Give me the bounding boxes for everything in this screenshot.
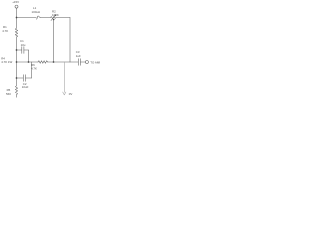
svg-text:100K: 100K — [52, 13, 59, 17]
wire: top rail middle segment — [40, 17, 50, 19]
wire: left rail mid section — [16, 50, 18, 78]
wire: C1 drop to mid bus — [28, 50, 30, 62]
capacitor C3 plates (output coupling) — [78, 59, 80, 66]
wire: mid bus right segment — [48, 61, 79, 63]
svg-text:4.7K: 4.7K — [2, 29, 8, 33]
wire: C2 bypass riser — [31, 62, 33, 78]
svg-text:4.7K 1W: 4.7K 1W — [1, 60, 12, 64]
svg-text:4.7K: 4.7K — [31, 67, 37, 71]
junction: wiper drop on mid bus — [53, 61, 55, 63]
svg-text:1uF: 1uF — [76, 54, 81, 58]
wire: top rail left segment — [17, 17, 37, 19]
svg-text:+15V: +15V — [12, 0, 19, 4]
resistor R6 (mid bus, horizontal) — [38, 61, 48, 64]
capacitor C1 branch wire — [17, 49, 22, 51]
wire: C1 to drop — [24, 49, 29, 51]
inductor L1 (inline squiggle on top rail) — [36, 16, 40, 19]
resistor R1 (left rail, vertical) — [15, 18, 17, 51]
svg-text:TO AMP: TO AMP — [90, 60, 100, 64]
terminal J1 (+15V input) — [15, 5, 18, 8]
wire: return drop from mid bus — [63, 62, 65, 92]
svg-text:10u: 10u — [21, 43, 26, 47]
svg-text:0V: 0V — [69, 92, 73, 96]
resistor R5 (left rail bottom, vertical) — [15, 78, 17, 97]
terminal J2 (output) — [85, 61, 88, 64]
capacitor C1 plates — [22, 47, 24, 54]
junction: top rail at left rail — [16, 17, 18, 19]
wire: wiper drop to mid bus — [53, 20, 55, 63]
wire: mid bus left segment — [17, 61, 39, 63]
svg-text:560: 560 — [6, 92, 11, 96]
svg-text:10uF: 10uF — [22, 85, 29, 89]
junction: C1 drop on mid bus — [28, 61, 30, 63]
wire: terminal to top rail — [16, 8, 18, 17]
wire: top rail right segment — [56, 17, 70, 19]
potentiometer R2 wiper arrow — [51, 15, 56, 21]
junction: mid bus at left rail — [16, 61, 18, 63]
junction: C2 branch at left rail — [16, 77, 18, 79]
junction: C1 branch at left rail — [16, 49, 18, 51]
wire: right drop from top rail to mid bus — [69, 18, 71, 63]
capacitor C2 plates — [23, 75, 25, 82]
wire: C2 branch from left rail — [17, 77, 24, 79]
wire: C2 to riser — [26, 77, 32, 79]
svg-text:100uH: 100uH — [32, 10, 41, 14]
junction: wiper tap on pot — [53, 19, 55, 21]
potentiometer R2 (tiny zigzag on top rail) — [51, 17, 57, 19]
wire: C3 to output terminal — [81, 61, 86, 63]
ground arrow (return) — [63, 92, 66, 95]
